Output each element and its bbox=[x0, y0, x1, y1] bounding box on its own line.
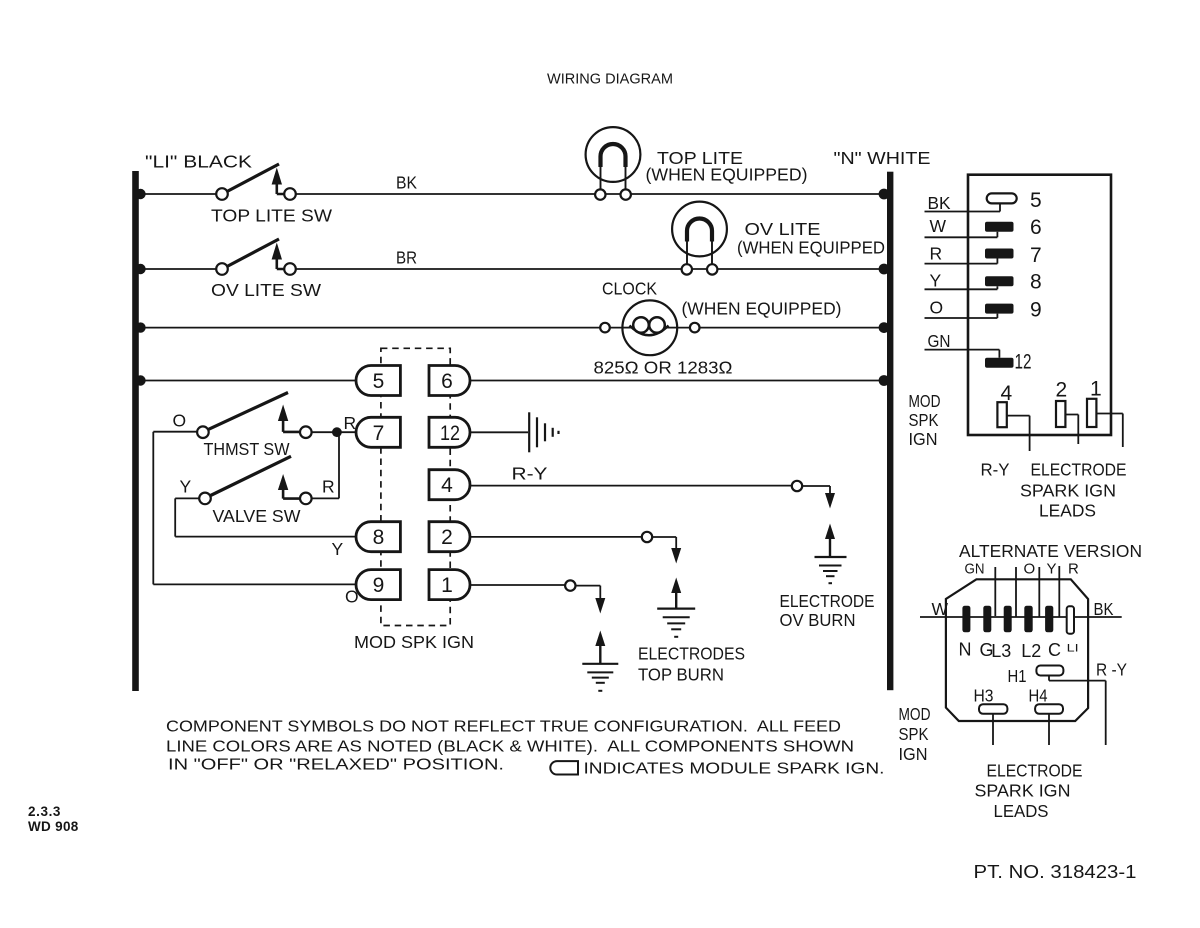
switch THMST SW bbox=[197, 393, 312, 439]
wire pin4 lead bbox=[1007, 416, 1030, 451]
svg-text:"N" WHITE: "N" WHITE bbox=[834, 148, 931, 168]
wire pin2 lead bbox=[1065, 415, 1078, 445]
svg-text:GN: GN bbox=[965, 561, 985, 578]
svg-text:(WHEN EQUIPPED: (WHEN EQUIPPED bbox=[737, 238, 885, 258]
junction thmst/valve bbox=[332, 427, 342, 437]
pin C alt bbox=[1045, 606, 1053, 633]
arrow down t1 bbox=[595, 598, 605, 614]
junction L1 row2 bbox=[135, 264, 145, 274]
pin LI alt bbox=[1067, 606, 1074, 633]
wire t4 elbow down bbox=[802, 486, 830, 495]
svg-text:9: 9 bbox=[1030, 298, 1042, 321]
svg-text:OV BURN: OV BURN bbox=[780, 610, 856, 630]
svg-text:7: 7 bbox=[1030, 244, 1042, 267]
terminal 7 bbox=[356, 417, 400, 447]
svg-text:1: 1 bbox=[1090, 378, 1102, 401]
svg-text:VALVE SW: VALVE SW bbox=[213, 506, 301, 526]
svg-text:SPARK IGN: SPARK IGN bbox=[1020, 480, 1116, 500]
svg-text:WIRING DIAGRAM: WIRING DIAGRAM bbox=[547, 72, 673, 88]
svg-text:ELECTRODE: ELECTRODE bbox=[987, 760, 1083, 780]
junction L1 row3 bbox=[135, 322, 145, 332]
svg-text:INDICATES MODULE SPARK IGN.: INDICATES MODULE SPARK IGN. bbox=[584, 761, 885, 778]
svg-text:SPARK IGN: SPARK IGN bbox=[975, 781, 1071, 801]
svg-text:Y: Y bbox=[930, 270, 942, 290]
svg-text:"LI" BLACK: "LI" BLACK bbox=[145, 152, 252, 172]
bus N white bbox=[887, 172, 893, 691]
svg-text:825Ω OR 1283Ω: 825Ω OR 1283Ω bbox=[594, 358, 733, 378]
connector circle t1 bbox=[565, 580, 575, 590]
ground sideways t12 bbox=[529, 412, 558, 452]
ground electrodes top burn bbox=[582, 664, 618, 691]
svg-text:2: 2 bbox=[441, 526, 453, 549]
wire GN to pin12 bbox=[925, 350, 1000, 358]
bus L1 black bbox=[132, 171, 139, 691]
wire row4 left bbox=[138, 380, 358, 382]
svg-text:BK: BK bbox=[396, 173, 417, 193]
svg-text:R-Y: R-Y bbox=[512, 464, 548, 484]
wire valve riser bbox=[338, 432, 340, 498]
pin L3 alt bbox=[1004, 606, 1012, 633]
svg-text:GN: GN bbox=[928, 331, 951, 351]
svg-text:9: 9 bbox=[373, 574, 385, 597]
pin 9 bbox=[985, 304, 1014, 314]
pin 12 bbox=[985, 358, 1014, 368]
pin G alt bbox=[983, 606, 991, 633]
pin 5 bbox=[987, 193, 1017, 203]
wire R to pin7 bbox=[925, 259, 998, 264]
wire BK to pin5 bbox=[925, 204, 1001, 212]
pin 8 bbox=[985, 276, 1014, 286]
svg-text:12: 12 bbox=[1015, 351, 1032, 374]
wire O to pin9 bbox=[925, 314, 998, 318]
wire row1 left bbox=[138, 193, 217, 195]
connector circle t2 bbox=[642, 532, 652, 542]
wire terminal 12 to ground bbox=[469, 431, 528, 433]
svg-text:1: 1 bbox=[441, 574, 453, 597]
svg-text:SPK: SPK bbox=[909, 410, 939, 430]
arrow up t1 spark gap bbox=[595, 631, 605, 664]
wire row2 right bbox=[294, 268, 887, 270]
wire H1 R-Y bbox=[1049, 676, 1106, 746]
svg-text:6: 6 bbox=[1030, 216, 1042, 239]
wire H4 lead bbox=[1048, 714, 1050, 745]
svg-text:ELECTRODE: ELECTRODE bbox=[780, 591, 875, 611]
wire row2 left bbox=[138, 268, 217, 270]
terminal 5 bbox=[356, 366, 400, 396]
arrow up t4 spark gap bbox=[825, 524, 835, 558]
wire W to pin6 bbox=[925, 232, 998, 238]
svg-text:MOD SPK IGN: MOD SPK IGN bbox=[354, 632, 474, 652]
terminal 4 bbox=[429, 470, 470, 500]
svg-text:Y: Y bbox=[180, 477, 192, 497]
wire thmst to terminal 7 bbox=[312, 431, 358, 433]
svg-text:4: 4 bbox=[441, 474, 453, 497]
junction N row3 bbox=[879, 322, 890, 333]
svg-text:5: 5 bbox=[1030, 189, 1042, 212]
arrow down t2 bbox=[671, 548, 681, 564]
svg-text:H4: H4 bbox=[1029, 686, 1048, 706]
svg-text:TOP BURN: TOP BURN bbox=[638, 665, 724, 685]
svg-text:L2: L2 bbox=[1021, 641, 1041, 661]
svg-text:R: R bbox=[930, 244, 943, 264]
svg-text:C: C bbox=[1048, 640, 1061, 660]
junction L1 row4 bbox=[135, 375, 145, 385]
svg-text:LI: LI bbox=[1067, 643, 1079, 655]
wire valve to riser bbox=[312, 497, 339, 499]
wire row4 right bbox=[469, 380, 887, 382]
svg-text:ELECTRODES: ELECTRODES bbox=[638, 644, 745, 664]
arrow down t4 bbox=[825, 493, 835, 509]
wire terminal 1 bbox=[469, 584, 565, 586]
svg-text:MOD: MOD bbox=[899, 704, 931, 724]
wire GN drop bbox=[994, 567, 996, 616]
svg-text:BK: BK bbox=[1094, 599, 1114, 619]
lamp TOP LITE bbox=[586, 127, 641, 200]
connector circle t4 bbox=[792, 481, 802, 491]
svg-text:BR: BR bbox=[396, 248, 417, 268]
pin N alt bbox=[962, 606, 970, 633]
svg-text:OV LITE SW: OV LITE SW bbox=[211, 280, 322, 300]
svg-text:W: W bbox=[932, 599, 949, 619]
svg-text:R: R bbox=[344, 413, 357, 433]
svg-text:Y: Y bbox=[1047, 561, 1057, 578]
svg-text:O: O bbox=[930, 297, 944, 317]
svg-text:WD 908: WD 908 bbox=[28, 819, 79, 834]
svg-text:2.3.3: 2.3.3 bbox=[28, 804, 61, 819]
svg-text:MOD: MOD bbox=[909, 391, 941, 411]
svg-text:O: O bbox=[1024, 561, 1036, 578]
pin 6 bbox=[985, 222, 1014, 232]
pin 7 bbox=[985, 249, 1014, 259]
svg-text:SPK: SPK bbox=[899, 724, 929, 744]
wire THMST left bbox=[153, 431, 197, 433]
switch TOP LITE SW bbox=[216, 164, 296, 200]
svg-text:12: 12 bbox=[440, 422, 460, 445]
svg-text:COMPONENT SYMBOLS DO NOT REFLE: COMPONENT SYMBOLS DO NOT REFLECT TRUE CO… bbox=[166, 719, 841, 736]
wire terminal 4 R-Y bbox=[469, 485, 792, 487]
svg-text:2: 2 bbox=[1056, 379, 1068, 402]
switch VALVE SW bbox=[199, 456, 311, 504]
ground top burn bbox=[657, 609, 695, 637]
svg-text:(WHEN EQUIPPED): (WHEN EQUIPPED) bbox=[682, 299, 842, 319]
terminal 6 bbox=[429, 366, 470, 396]
svg-text:ALTERNATE VERSION: ALTERNATE VERSION bbox=[959, 541, 1142, 561]
svg-text:R: R bbox=[322, 477, 335, 497]
svg-text:IGN: IGN bbox=[899, 744, 928, 764]
svg-text:IN "OFF" OR "RELAXED" POSITION: IN "OFF" OR "RELAXED" POSITION. bbox=[168, 757, 504, 774]
svg-text:ELECTRODE: ELECTRODE bbox=[1031, 460, 1127, 480]
svg-text:PT. NO. 318423-1: PT. NO. 318423-1 bbox=[974, 861, 1137, 882]
wire row1 right bbox=[294, 193, 887, 195]
wire Y drop bbox=[1038, 567, 1040, 617]
svg-text:Y: Y bbox=[332, 539, 344, 559]
svg-text:R-Y: R-Y bbox=[981, 460, 1010, 480]
svg-text:L3: L3 bbox=[991, 641, 1011, 661]
note terminal symbol bbox=[550, 761, 578, 774]
terminal 12 bbox=[429, 417, 470, 447]
pin L2 alt bbox=[1024, 606, 1032, 633]
wire H3 lead bbox=[992, 714, 994, 745]
svg-text:6: 6 bbox=[441, 370, 453, 393]
svg-text:LEADS: LEADS bbox=[1039, 501, 1096, 521]
svg-text:THMST SW: THMST SW bbox=[204, 439, 290, 459]
svg-text:O: O bbox=[173, 411, 187, 431]
wire terminal 2 bbox=[469, 536, 642, 538]
wire t2 elbow down bbox=[652, 537, 676, 550]
svg-text:W: W bbox=[930, 216, 947, 236]
svg-text:R: R bbox=[1068, 561, 1079, 578]
terminal 1 bbox=[429, 570, 470, 600]
ground OV burn bbox=[815, 557, 847, 583]
arrow up t2 spark gap bbox=[671, 578, 681, 609]
wire Y to pin8 bbox=[925, 286, 998, 289]
svg-text:(WHEN EQUIPPED): (WHEN EQUIPPED) bbox=[646, 165, 808, 185]
connector block MOD SPK IGN bbox=[968, 175, 1111, 435]
switch OV LITE SW bbox=[216, 239, 296, 275]
terminal 8 bbox=[356, 522, 400, 552]
wire row3 bbox=[138, 327, 887, 329]
clock bbox=[600, 300, 699, 355]
wire W to BK through pins bbox=[920, 616, 1122, 618]
svg-text:8: 8 bbox=[373, 526, 385, 549]
svg-text:IGN: IGN bbox=[909, 429, 938, 449]
terminal 9 bbox=[356, 570, 400, 600]
svg-text:LEADS: LEADS bbox=[994, 801, 1049, 821]
octagon alternate block bbox=[946, 579, 1088, 721]
svg-text:N: N bbox=[959, 640, 972, 660]
lamp OV LITE bbox=[672, 202, 727, 275]
svg-text:5: 5 bbox=[373, 370, 385, 393]
wire pin1 lead bbox=[1096, 414, 1122, 448]
svg-text:H1: H1 bbox=[1008, 666, 1027, 686]
svg-text:LINE COLORS ARE AS NOTED (BLAC: LINE COLORS ARE AS NOTED (BLACK & WHITE)… bbox=[166, 738, 854, 755]
terminal 2 bbox=[429, 522, 470, 552]
junction L1 row1 bbox=[135, 189, 145, 199]
wire R drop bbox=[1058, 566, 1060, 617]
svg-text:7: 7 bbox=[373, 422, 385, 445]
dashed box MOD SPK IGN bbox=[381, 348, 450, 625]
junction N row2 bbox=[879, 264, 890, 275]
junction N row4 bbox=[879, 375, 890, 386]
svg-text:R -Y: R -Y bbox=[1096, 660, 1127, 680]
svg-text:8: 8 bbox=[1030, 271, 1042, 294]
svg-text:H3: H3 bbox=[974, 686, 994, 706]
svg-text:OV LITE: OV LITE bbox=[745, 219, 821, 239]
junction N row1 bbox=[879, 189, 890, 200]
svg-text:BK: BK bbox=[928, 193, 951, 213]
svg-text:CLOCK: CLOCK bbox=[602, 279, 657, 299]
wire t1 elbow down bbox=[576, 586, 601, 600]
wire valve left bbox=[175, 498, 358, 536]
svg-text:TOP LITE SW: TOP LITE SW bbox=[211, 206, 333, 226]
wire O drop bbox=[1015, 567, 1017, 617]
wire THMST feed vertical bbox=[153, 432, 358, 585]
